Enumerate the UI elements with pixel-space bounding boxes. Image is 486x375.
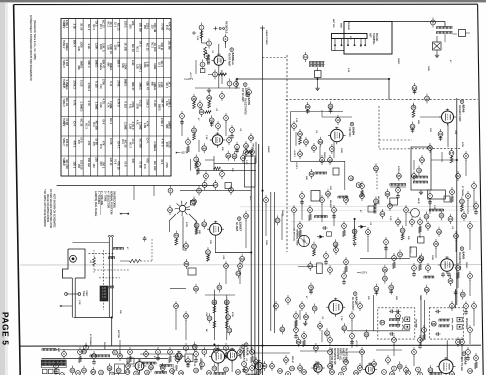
capacitor C83 bbox=[125, 370, 130, 375]
capacitor bbox=[328, 338, 333, 343]
capacitor C54 bbox=[309, 285, 314, 290]
svg-text:13: 13 bbox=[184, 244, 188, 248]
svg-text:0 115: 0 115 bbox=[80, 80, 84, 87]
svg-text:6AQ5: 6AQ5 bbox=[355, 297, 359, 305]
resistor bbox=[250, 350, 255, 355]
bus wire bbox=[250, 150, 252, 352]
svg-text:270K 2: 270K 2 bbox=[87, 83, 91, 92]
coil L10 bbox=[246, 374, 248, 375]
junction bbox=[250, 252, 252, 254]
svg-text:150 1M: 150 1M bbox=[87, 158, 91, 168]
svg-text:120K: 120K bbox=[94, 43, 98, 49]
box bbox=[327, 232, 332, 236]
coil L2 AM ant bbox=[314, 216, 316, 218]
capacitor C11 bbox=[425, 96, 430, 101]
wire bbox=[291, 160, 345, 162]
resistor R30 bbox=[93, 258, 96, 266]
tube V13 bbox=[314, 364, 322, 372]
wire bbox=[453, 33, 458, 35]
capacitor C20 bbox=[326, 191, 331, 196]
svg-text:2.2ME: 2.2ME bbox=[94, 102, 98, 110]
wire bbox=[221, 74, 223, 84]
svg-text:37: 37 bbox=[309, 264, 313, 268]
svg-text:44: 44 bbox=[203, 146, 207, 150]
wire bbox=[321, 204, 323, 222]
resistor R10 bbox=[400, 228, 405, 233]
arrow lead bbox=[62, 305, 73, 307]
wire bbox=[334, 45, 336, 51]
switch contact box bbox=[191, 201, 196, 205]
wire bbox=[431, 159, 457, 161]
wire bbox=[225, 270, 227, 284]
box bbox=[127, 358, 134, 364]
capacitor bbox=[244, 214, 249, 219]
wire bbox=[170, 288, 186, 290]
capacitor bbox=[344, 198, 349, 203]
capacitor bbox=[118, 354, 123, 359]
resistor R16 bbox=[214, 167, 221, 170]
svg-text:22: 22 bbox=[460, 200, 464, 204]
output transformer dashed box bbox=[378, 308, 415, 339]
svg-text:52: 52 bbox=[206, 250, 210, 254]
svg-text:6AV6: 6AV6 bbox=[461, 252, 465, 260]
wire bbox=[185, 320, 187, 340]
resistor R29 bbox=[245, 151, 253, 154]
svg-text:21: 21 bbox=[224, 368, 228, 372]
svg-text:96: 96 bbox=[108, 366, 112, 370]
resistor bbox=[186, 140, 191, 145]
svg-text:ON (RECORD): ON (RECORD) bbox=[113, 191, 116, 208]
wire bbox=[473, 310, 475, 326]
capacitor bbox=[328, 364, 333, 369]
capacitor bbox=[241, 156, 246, 161]
capacitor C74 bbox=[160, 366, 165, 371]
svg-text:24: 24 bbox=[290, 367, 294, 371]
faint scan streak bbox=[20, 264, 481, 266]
svg-text:0 115: 0 115 bbox=[94, 81, 98, 88]
svg-text:1MEG: 1MEG bbox=[65, 43, 69, 51]
wire bbox=[42, 357, 169, 359]
wire bbox=[455, 240, 457, 252]
capacitor bbox=[238, 264, 243, 269]
wire bbox=[291, 111, 344, 113]
svg-text:12AX7: 12AX7 bbox=[245, 88, 249, 98]
capacitor bbox=[300, 304, 305, 309]
resistor R7 bbox=[448, 279, 453, 284]
resistor bbox=[196, 162, 201, 167]
svg-text:FM-AM IF AMP: FM-AM IF AMP bbox=[458, 105, 461, 122]
svg-text:89: 89 bbox=[297, 340, 301, 344]
coil L5 bbox=[89, 355, 91, 357]
svg-text:46: 46 bbox=[233, 154, 237, 158]
capacitor bbox=[247, 90, 252, 95]
IF can outline bbox=[115, 364, 125, 374]
twin lead bbox=[108, 237, 110, 318]
wire bbox=[333, 214, 335, 226]
svg-text:2.2K: 2.2K bbox=[340, 316, 342, 321]
svg-text:3 - TONE: 3 - TONE bbox=[103, 191, 106, 202]
component on bus bbox=[275, 218, 280, 223]
capacitor C72 bbox=[116, 368, 121, 373]
capacitor C56 bbox=[389, 285, 394, 290]
capacitor C4 bbox=[200, 62, 205, 67]
resistor bbox=[422, 328, 427, 333]
capacitor bbox=[392, 338, 397, 343]
svg-text:10: 10 bbox=[244, 214, 248, 218]
svg-text:NC 2: NC 2 bbox=[92, 24, 95, 30]
svg-text:12: 12 bbox=[224, 264, 228, 268]
svg-text:(Howard W. Sams & Co., Inc. 19: (Howard W. Sams & Co., Inc. 1958) bbox=[33, 20, 36, 60]
svg-text:150: 150 bbox=[128, 24, 131, 29]
capacitor C66 bbox=[296, 339, 301, 344]
wire bbox=[55, 349, 235, 351]
wire bbox=[321, 330, 323, 342]
transformer T4 bbox=[389, 319, 391, 321]
svg-text:68K: 68K bbox=[106, 62, 109, 67]
svg-text:100K: 100K bbox=[340, 148, 342, 154]
wire bbox=[295, 132, 297, 146]
wire bbox=[293, 214, 295, 228]
trimmer C3 bbox=[223, 37, 228, 42]
svg-text:NC 22: NC 22 bbox=[146, 43, 150, 51]
svg-text:97: 97 bbox=[117, 369, 121, 373]
wire bbox=[397, 320, 399, 328]
coil L13 bbox=[208, 55, 210, 57]
svg-text:ANT: ANT bbox=[369, 33, 372, 38]
wire bbox=[317, 68, 319, 71]
capacitor bbox=[404, 208, 409, 213]
svg-text:3.3K: 3.3K bbox=[165, 101, 168, 106]
resistor R5 bbox=[448, 217, 453, 222]
svg-text:29: 29 bbox=[353, 230, 357, 234]
svg-text:IO 68: IO 68 bbox=[138, 161, 142, 168]
svg-text:4.7K: 4.7K bbox=[106, 103, 109, 108]
wire bbox=[218, 66, 220, 88]
transformer T5 bbox=[438, 319, 440, 321]
resistor R17 bbox=[213, 183, 218, 188]
svg-text:87: 87 bbox=[429, 368, 433, 372]
svg-text:FM OSC: FM OSC bbox=[348, 128, 351, 138]
table: tube location & resistance chart bbox=[61, 19, 172, 177]
svg-text:26: 26 bbox=[326, 192, 330, 196]
capacitor bbox=[336, 118, 341, 123]
svg-text:1K 1: 1K 1 bbox=[99, 24, 102, 30]
resistor R12 bbox=[207, 96, 212, 101]
svg-text:TUBE V: TUBE V bbox=[62, 118, 64, 127]
svg-text:10K: 10K bbox=[209, 240, 211, 244]
coil can bbox=[311, 191, 320, 202]
capacitor bbox=[156, 350, 161, 355]
resistor R24 bbox=[224, 300, 229, 305]
svg-text:AF OUTPUT: AF OUTPUT bbox=[351, 297, 354, 311]
capacitor C55 bbox=[374, 286, 379, 291]
svg-text:TUBE V: TUBE V bbox=[62, 40, 64, 49]
capacitor C78 bbox=[250, 366, 255, 371]
capacitor C45 bbox=[309, 172, 314, 177]
capacitor bbox=[254, 360, 259, 365]
svg-text:1MEG: 1MEG bbox=[124, 79, 128, 87]
tube V1 FM RF amp 6AB4 bbox=[214, 56, 224, 66]
svg-text:59: 59 bbox=[329, 105, 333, 109]
capacitor C27 bbox=[383, 267, 388, 272]
svg-text:150 1M: 150 1M bbox=[168, 40, 172, 50]
capacitor bbox=[358, 304, 363, 309]
svg-text:53: 53 bbox=[240, 257, 244, 261]
svg-text:3.3K: 3.3K bbox=[106, 45, 109, 50]
capacitor bbox=[456, 340, 461, 345]
wire bbox=[435, 248, 437, 258]
svg-text:0 11: 0 11 bbox=[99, 84, 102, 89]
svg-text:14: 14 bbox=[328, 158, 332, 162]
capacitor bbox=[168, 208, 173, 213]
svg-text:68K: 68K bbox=[417, 120, 419, 124]
capacitor C75 bbox=[202, 350, 207, 355]
svg-text:47K: 47K bbox=[131, 158, 135, 163]
svg-text:120K: 120K bbox=[99, 44, 102, 50]
capacitor bbox=[314, 364, 319, 369]
svg-text:NC 330: NC 330 bbox=[153, 161, 157, 171]
loop terminal view bbox=[298, 235, 309, 246]
wire bbox=[215, 238, 217, 253]
wire bbox=[236, 79, 238, 88]
svg-text:39: 39 bbox=[208, 96, 212, 100]
wire bbox=[225, 122, 227, 136]
junction bbox=[388, 78, 390, 80]
coil on lead bbox=[113, 247, 115, 249]
box tuning ind bbox=[188, 268, 196, 275]
wire bbox=[405, 214, 407, 226]
coil cluster bbox=[389, 184, 391, 186]
svg-text:AM ANT COIL: AM ANT COIL bbox=[293, 228, 296, 242]
wire bbox=[298, 266, 317, 268]
capacitor C107 bbox=[390, 372, 395, 375]
svg-text:100K: 100K bbox=[231, 60, 233, 66]
svg-text:2.2K: 2.2K bbox=[245, 160, 247, 165]
capacitor bbox=[292, 124, 297, 129]
wire bbox=[457, 272, 459, 288]
capacitor bbox=[332, 208, 337, 213]
svg-text:26: 26 bbox=[344, 360, 348, 364]
svg-text:75: 75 bbox=[213, 367, 217, 371]
page border right (tilted) bbox=[478, 4, 484, 375]
wire bbox=[419, 226, 421, 238]
svg-text:NC 2: NC 2 bbox=[136, 46, 139, 52]
svg-text:2.2K: 2.2K bbox=[389, 216, 391, 221]
crystal X1 bbox=[433, 42, 442, 50]
capacitor bbox=[180, 114, 185, 119]
svg-text:IO 4: IO 4 bbox=[121, 139, 124, 144]
capacitor bbox=[54, 364, 59, 369]
IF transformer T3 can bbox=[428, 190, 446, 199]
svg-text:50: 50 bbox=[203, 222, 207, 226]
capacitor C61 bbox=[380, 320, 385, 325]
capacitor bbox=[204, 54, 209, 59]
resistor R2 bbox=[204, 47, 207, 55]
svg-text:33: 33 bbox=[401, 229, 405, 233]
capacitor bbox=[462, 214, 467, 219]
capacitor C40 bbox=[236, 271, 241, 276]
wire bbox=[319, 146, 321, 158]
svg-text:+117 V: +117 V bbox=[360, 273, 368, 275]
svg-text:IF TRANS: IF TRANS bbox=[461, 186, 464, 196]
svg-text:2.2M: 2.2M bbox=[99, 102, 102, 107]
svg-text:IO 4: IO 4 bbox=[92, 122, 95, 127]
svg-text:120K: 120K bbox=[114, 45, 117, 51]
resistor bbox=[344, 260, 349, 265]
wire bbox=[139, 370, 141, 375]
svg-text:270K 2: 270K 2 bbox=[160, 118, 164, 127]
capacitor bbox=[412, 174, 417, 179]
svg-text:FM RF AMP: FM RF AMP bbox=[228, 53, 231, 66]
svg-text:470K: 470K bbox=[397, 166, 399, 172]
dashed lead bbox=[99, 277, 120, 279]
capacitor bbox=[244, 368, 249, 373]
svg-text:NOT SHOWN ON SCHEMATIC: NOT SHOWN ON SCHEMATIC bbox=[52, 194, 55, 228]
svg-text:19: 19 bbox=[194, 369, 198, 373]
capacitor C28 bbox=[383, 276, 388, 281]
capacitor C63 bbox=[460, 292, 465, 297]
resistor bbox=[78, 350, 83, 355]
coil L7 bbox=[337, 196, 339, 198]
dashed divider bbox=[379, 148, 460, 150]
wire B+ feed bbox=[237, 78, 389, 80]
svg-text:23: 23 bbox=[462, 214, 466, 218]
capacitor bbox=[92, 354, 97, 359]
resistor bbox=[302, 334, 307, 339]
capacitor bbox=[320, 158, 325, 163]
capacitor C13 bbox=[438, 132, 443, 137]
capacitor bbox=[464, 154, 469, 159]
svg-text:470K: 470K bbox=[185, 222, 187, 228]
svg-text:GANG TUNER: GANG TUNER bbox=[265, 30, 268, 45]
wire bbox=[180, 190, 251, 192]
svg-text:220 11: 220 11 bbox=[109, 158, 113, 167]
svg-text:21: 21 bbox=[428, 146, 432, 150]
capacitor C113 bbox=[197, 188, 202, 193]
svg-text:2.2MEG: 2.2MEG bbox=[80, 102, 84, 112]
svg-text:98: 98 bbox=[149, 365, 153, 369]
wire bbox=[175, 310, 177, 330]
transformer T1 primary bbox=[436, 27, 438, 29]
resistor R6 bbox=[460, 199, 465, 204]
svg-text:56: 56 bbox=[281, 328, 285, 332]
svg-text:1MEG: 1MEG bbox=[94, 60, 98, 68]
wire bbox=[205, 294, 235, 296]
capacitor C18 bbox=[419, 256, 424, 261]
wire bbox=[119, 340, 121, 356]
capacitor bbox=[194, 352, 199, 357]
capacitor C14 bbox=[417, 168, 422, 173]
svg-text:MOTOR: MOTOR bbox=[117, 330, 119, 339]
bus wire bbox=[254, 158, 256, 375]
capacitor bbox=[298, 366, 303, 371]
capacitor C37 bbox=[202, 222, 207, 227]
svg-text:+117 V: +117 V bbox=[181, 153, 189, 155]
capacitor C105 bbox=[286, 372, 291, 375]
capacitor bbox=[184, 346, 189, 351]
wire AC rail bbox=[20, 344, 481, 347]
coil T2 bbox=[413, 176, 415, 178]
capacitor bbox=[468, 328, 473, 333]
capacitor bbox=[404, 368, 409, 373]
wire bbox=[281, 214, 283, 240]
junction bbox=[236, 78, 238, 80]
resistor bbox=[128, 350, 133, 355]
svg-text:10K: 10K bbox=[419, 296, 421, 300]
faint scan streak bbox=[240, 205, 478, 207]
capacitor C42 bbox=[305, 105, 310, 110]
wire bbox=[413, 160, 415, 170]
coil on bus bbox=[108, 257, 110, 259]
junction bbox=[317, 78, 319, 80]
svg-text:BOARD: BOARD bbox=[375, 33, 378, 42]
svg-text:+117 V: +117 V bbox=[189, 72, 191, 79]
svg-text:150 1: 150 1 bbox=[124, 21, 128, 28]
svg-text:95: 95 bbox=[92, 370, 96, 374]
svg-text:79: 79 bbox=[313, 307, 317, 311]
tube V7 AF out 12AX7 bbox=[212, 350, 225, 363]
capacitor bbox=[204, 174, 209, 179]
svg-text:17: 17 bbox=[388, 204, 392, 208]
svg-text:NC 2: NC 2 bbox=[150, 42, 153, 48]
wire bbox=[208, 74, 213, 76]
IF transformer T2 can bbox=[411, 147, 431, 190]
ground bbox=[304, 321, 306, 323]
capacitor bbox=[420, 158, 425, 163]
svg-text:21: 21 bbox=[449, 217, 453, 221]
capacitor C111 bbox=[60, 373, 65, 375]
wire bbox=[467, 200, 469, 214]
capacitor bbox=[244, 150, 249, 155]
svg-text:83: 83 bbox=[365, 333, 369, 337]
svg-text:4.7K: 4.7K bbox=[136, 120, 139, 125]
capacitor C106 bbox=[339, 372, 344, 375]
capacitor C117 bbox=[436, 310, 438, 314]
resistor bbox=[450, 190, 455, 195]
band switch S1 bbox=[179, 205, 185, 211]
capacitor C24 bbox=[380, 212, 385, 217]
svg-text:93: 93 bbox=[71, 369, 75, 373]
transformer T1 secondary bbox=[436, 32, 438, 34]
svg-text:68K: 68K bbox=[305, 176, 307, 180]
wire bbox=[329, 356, 331, 364]
tube V8 audio out 6AQ5 bbox=[329, 300, 343, 314]
svg-text:47K: 47K bbox=[92, 142, 95, 147]
svg-text:12AX7: 12AX7 bbox=[239, 222, 243, 232]
capacitor C70 bbox=[91, 370, 96, 375]
svg-text:12: 12 bbox=[298, 152, 302, 156]
svg-text:51: 51 bbox=[195, 224, 199, 228]
capacitor C58 bbox=[325, 331, 330, 336]
left page gutter shading bbox=[0, 2, 5, 375]
resistor R18 bbox=[174, 233, 179, 238]
svg-text:47K: 47K bbox=[146, 158, 150, 163]
svg-text:2ND IF AMP: 2ND IF AMP bbox=[199, 358, 202, 371]
svg-text:IO 4.7: IO 4.7 bbox=[116, 141, 120, 149]
speaker terminal bbox=[457, 317, 462, 322]
wire bbox=[446, 340, 448, 359]
bus wire bbox=[274, 192, 276, 333]
capacitor C68 bbox=[70, 368, 75, 373]
svg-text:82: 82 bbox=[343, 326, 347, 330]
box bbox=[368, 206, 374, 212]
svg-text:VOLUME: VOLUME bbox=[415, 319, 417, 328]
coil L9 bbox=[213, 373, 215, 375]
svg-text:11: 11 bbox=[238, 264, 241, 268]
capacitor C26 bbox=[398, 252, 403, 257]
box bbox=[444, 196, 450, 202]
wire bbox=[469, 280, 471, 296]
